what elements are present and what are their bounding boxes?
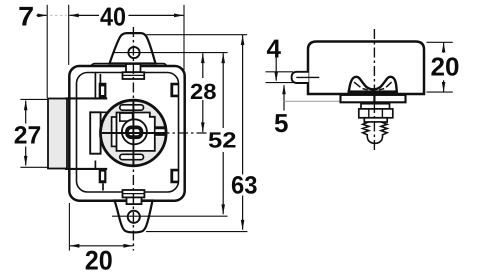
svg-text:5: 5 [274,108,288,138]
arrowheads top [37,14,183,18]
27 dimension [20,99,47,167]
axis bold through flange [373,95,375,103]
latch bar [48,99,67,169]
ear clip bottom-left [99,169,107,184]
clip ticks [354,82,392,90]
top hat wide [123,72,145,79]
hex nut [359,109,393,118]
top boss line [91,64,167,66]
ear clip bottom-right [170,169,178,184]
bottom hat midline [123,193,145,195]
top hat midline [123,74,145,76]
axis bold in knob [132,101,134,165]
svg-text:7: 7 [18,2,34,32]
threaded stud [363,122,387,143]
ext line x=68.7 [68,5,70,65]
knob square plate [117,113,155,151]
top hole h-crosshair + ext to dims [114,52,228,54]
right ext lines [146,35,247,232]
body outer plate [69,66,184,201]
right keyway notch [156,126,164,137]
5 dimension [283,85,285,110]
knob outer circle [101,100,167,166]
svg-text:20: 20 [85,245,113,275]
side axis [373,29,375,153]
svg-text:63: 63 [231,172,258,200]
ear clip top-right [170,83,178,98]
28 dim line [202,53,204,132]
bolt guide rectangle [90,112,100,153]
vertical center axis [132,27,134,251]
serrated flange [341,95,406,102]
h-centerline bold in knob [102,132,167,134]
63 dim line [242,35,244,230]
side body [308,42,424,95]
svg-text:40: 40 [100,2,126,32]
faint line [283,100,340,102]
knob top slot [120,105,144,110]
ext line x=184 [183,5,185,70]
knob bottom slot [120,154,144,159]
plate notch top-left [120,113,133,121]
top dimension line 7 / 40 [37,14,184,16]
dark base bar [348,90,397,95]
knob inner ring [127,127,141,137]
20 right dimension [427,42,453,92]
horizontal centerline [104,132,208,134]
spring clip humps [349,77,397,93]
svg-text:28: 28 [190,79,217,104]
latch bolt nose [292,72,309,83]
20 bottom dimension [68,203,70,251]
collar 1 [361,104,390,109]
svg-text:4: 4 [266,33,281,63]
left mechanism channel [65,98,107,168]
collar 2 [364,118,387,122]
bottom tab [115,201,153,233]
knob middle circle [122,119,147,144]
ext line x=47.2 [46,5,48,98]
svg-text:20: 20 [431,51,460,81]
top tab [110,33,156,63]
knob left lug [112,117,119,146]
bolt mid line [296,76,319,78]
4 dimension [266,72,294,83]
svg-text:52: 52 [208,128,237,153]
ear clip top-left [99,83,107,98]
52 dim line [222,53,224,214]
bottom screw hole [128,211,140,223]
bottom hole h-crosshair + ext [112,215,228,217]
top screw hole [128,47,139,58]
svg-text:27: 27 [14,121,42,149]
bottom hat narrow [127,197,142,204]
bottom hat wide [123,190,145,197]
top hat narrow [126,64,141,72]
inner plate [77,73,179,193]
